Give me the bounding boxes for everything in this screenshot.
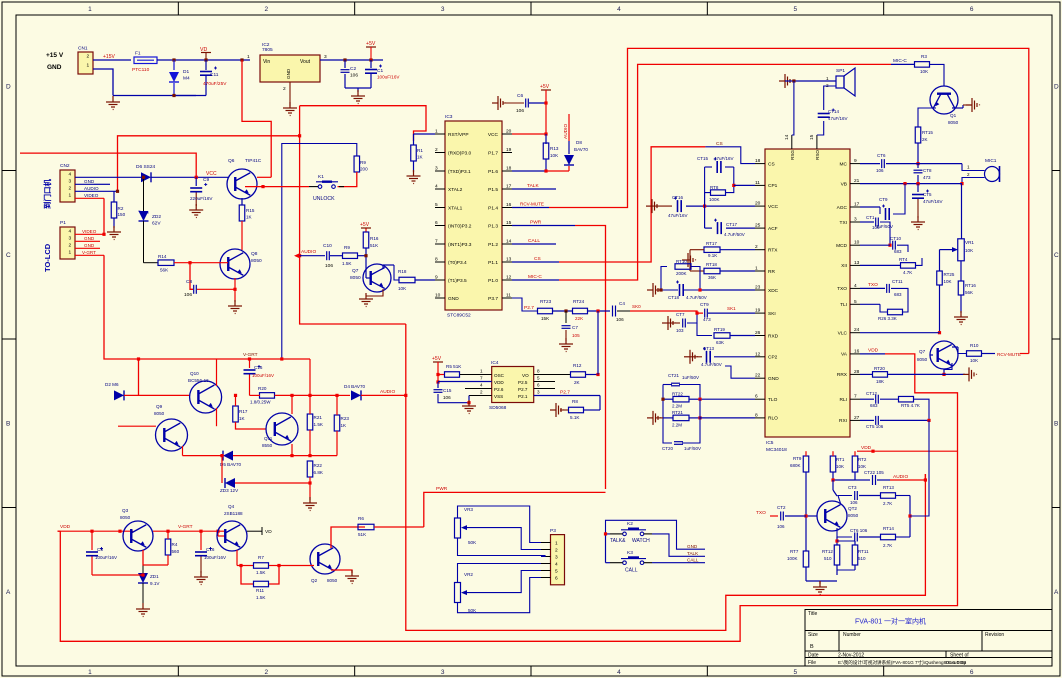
svg-text:RT22: RT22	[672, 392, 683, 397]
capacitor CT12 683 rli	[860, 391, 898, 408]
mcu pins and names	[435, 129, 512, 302]
svg-text:CT6: CT6	[877, 153, 886, 158]
zener ZD3 12V	[220, 454, 310, 493]
resistor RT11 510	[837, 541, 869, 570]
capacitor CT18 4.7uF/50V	[668, 281, 707, 301]
svg-text:C10: C10	[323, 243, 332, 249]
resistor RT24 22K	[553, 299, 610, 321]
svg-text:36K: 36K	[708, 275, 716, 280]
wire gnd pin22	[725, 366, 755, 378]
svg-text:SKI: SKI	[768, 311, 776, 317]
svg-text:Q9: Q9	[156, 404, 163, 409]
svg-text:Q7: Q7	[919, 349, 926, 354]
svg-text:(T1)P3.5: (T1)P3.5	[448, 278, 467, 284]
svg-text:+5V: +5V	[366, 41, 376, 47]
svg-text:1uF/50V: 1uF/50V	[682, 375, 699, 380]
svg-text:3: 3	[324, 54, 327, 60]
mic MIC1	[967, 158, 1000, 182]
svg-text:RT13: RT13	[883, 485, 894, 490]
svg-text:CT13: CT13	[703, 346, 715, 351]
wire Q3 collector V-GRT	[153, 524, 225, 536]
resistor RT25 10K	[937, 250, 955, 335]
wire VCE to Q10 base	[124, 394, 190, 396]
svg-text:3: 3	[555, 555, 558, 561]
svg-text:17: 17	[506, 184, 512, 190]
wires speaker pins	[785, 79, 836, 135]
svg-text:RT10: RT10	[676, 259, 687, 264]
svg-text:RT17: RT17	[706, 241, 717, 246]
svg-text:XDC: XDC	[768, 288, 779, 294]
resistor R5 51K	[438, 364, 475, 377]
wire D6 to VCC node	[151, 171, 228, 179]
svg-text:51K: 51K	[370, 243, 379, 248]
svg-text:CT6 106: CT6 106	[850, 528, 868, 533]
svg-text:106: 106	[850, 500, 858, 505]
resistor RT1 10K	[830, 451, 845, 480]
resistor R17 1K	[233, 394, 266, 429]
svg-text:8: 8	[435, 257, 438, 263]
resistor RT4 4.7K xii	[860, 257, 922, 275]
label to-door chinese	[42, 179, 52, 209]
svg-text:CT11: CT11	[892, 279, 903, 284]
svg-text:5: 5	[435, 202, 438, 208]
svg-text:P1.6: P1.6	[488, 169, 498, 175]
resistor R20 1.8/0.25W	[250, 386, 312, 405]
labels GND TALK CALL	[687, 544, 699, 563]
ground under CT5	[911, 216, 925, 230]
svg-text:473: 473	[923, 175, 931, 180]
svg-text:BC556-16: BC556-16	[188, 378, 209, 383]
svg-text:P2.5: P2.5	[518, 380, 528, 385]
node +5V bar Q7	[360, 222, 371, 228]
svg-text:RT19: RT19	[714, 327, 725, 332]
svg-text:19: 19	[755, 308, 761, 314]
svg-text:1.5K: 1.5K	[256, 570, 266, 575]
svg-text:Q11: Q11	[264, 436, 273, 441]
svg-text:VDD: VDD	[868, 348, 879, 354]
svg-text:1.5K: 1.5K	[314, 422, 324, 427]
svg-text:VR3: VR3	[464, 507, 473, 512]
wire Q6 collector	[257, 176, 271, 178]
svg-text:P1: P1	[60, 220, 66, 226]
svg-text:RT12: RT12	[822, 549, 833, 554]
svg-text:560: 560	[172, 549, 180, 554]
svg-text:+15 V: +15 V	[46, 52, 64, 59]
svg-text:1: 1	[88, 669, 92, 676]
svg-text:Q4: Q4	[228, 504, 235, 509]
svg-text:3: 3	[69, 179, 72, 185]
svg-text:C4: C4	[619, 301, 625, 306]
connector CN2	[60, 163, 75, 202]
svg-text:R4: R4	[172, 542, 178, 547]
svg-text:11: 11	[755, 180, 760, 186]
svg-text:RTX: RTX	[768, 248, 778, 254]
transistor Q2 8050	[310, 544, 340, 583]
wires P1 pins red	[75, 234, 104, 255]
svg-text:P1.0: P1.0	[488, 278, 498, 284]
svg-text:7: 7	[435, 239, 438, 245]
wire TXO pin4	[860, 279, 908, 297]
svg-text:K3: K3	[627, 550, 633, 556]
wire vgrt to vce riser	[138, 359, 140, 395]
ground under R22	[303, 497, 317, 511]
node VD power bar	[200, 47, 211, 60]
svg-text:VLC: VLC	[838, 331, 848, 337]
node VD out	[247, 527, 272, 535]
capacitor CT17 4.7uF/50V acf	[705, 219, 755, 237]
wire MIC-C net	[512, 64, 891, 280]
svg-text:CALL: CALL	[687, 558, 699, 563]
wire VCC pin20	[512, 132, 548, 135]
svg-text:47uF/16V: 47uF/16V	[668, 213, 688, 218]
labels CN2 nets	[84, 179, 99, 198]
svg-text:CS: CS	[534, 256, 541, 262]
svg-text:7: 7	[854, 394, 857, 400]
wire PWR net	[512, 220, 606, 490]
wire gnd under C1 C2	[345, 88, 371, 104]
svg-text:IC5: IC5	[766, 440, 774, 446]
svg-text:6: 6	[970, 6, 974, 13]
svg-text:RT24: RT24	[573, 299, 585, 304]
svg-text:CT15: CT15	[697, 156, 709, 161]
resistor R6 51K	[358, 516, 424, 537]
wire TALK net	[512, 183, 556, 189]
svg-text:RT5 4.7K: RT5 4.7K	[901, 403, 920, 408]
svg-text:GND: GND	[47, 64, 62, 71]
svg-text:AGC: AGC	[837, 205, 848, 211]
svg-text:106: 106	[872, 225, 880, 230]
svg-text:ZD2: ZD2	[152, 214, 161, 220]
svg-text:RT15: RT15	[922, 130, 933, 135]
svg-text:PTC110: PTC110	[132, 67, 150, 73]
capacitor C9 220uF/16V	[190, 177, 213, 206]
wire Q2 collector R6	[331, 527, 365, 548]
svg-text:A: A	[6, 589, 11, 596]
resistor RT9 680K	[790, 451, 809, 551]
svg-text:CT8: CT8	[923, 168, 932, 173]
transistor Q9 8050	[154, 404, 188, 451]
svg-text:VO: VO	[522, 373, 529, 378]
svg-text:4: 4	[69, 229, 72, 235]
capacitor C7 105	[562, 311, 581, 341]
svg-text:7805: 7805	[262, 47, 273, 53]
wire RCV-MUTE net	[512, 48, 1029, 353]
capacitor C6 106 and +5V	[503, 84, 551, 134]
resistor RT7 100K	[787, 549, 809, 581]
wire Q11 collector emitter	[290, 397, 293, 457]
svg-text:CT10: CT10	[890, 236, 902, 241]
svg-text:8050: 8050	[154, 411, 165, 416]
svg-text:ACF: ACF	[768, 226, 778, 232]
potentiometer VR3 50K	[455, 507, 478, 545]
svg-text:R18: R18	[398, 269, 407, 274]
svg-text:1.5K: 1.5K	[342, 261, 352, 266]
ground left of R8	[550, 403, 564, 417]
svg-text:4.7uF/50V: 4.7uF/50V	[686, 295, 707, 300]
svg-text:AUDIO: AUDIO	[84, 186, 99, 191]
svg-text:CT2: CT2	[777, 505, 786, 510]
wire Q2 base R7	[283, 565, 314, 567]
svg-text:18: 18	[755, 158, 761, 164]
resistor RT20 18K rrx	[860, 366, 944, 384]
resistor R1 1K	[411, 134, 435, 172]
svg-text:RR: RR	[768, 269, 775, 275]
resistor R4 560	[165, 530, 179, 565]
svg-text:7: 7	[480, 376, 483, 381]
wire QT2 base links	[804, 480, 837, 518]
resistor R9b 1.5K	[330, 245, 366, 266]
wire VCC branch red left rail	[20, 153, 196, 176]
resistor R12 2K	[571, 311, 600, 385]
capacitor CT14 47uF/16V	[818, 109, 848, 122]
resistor RT15 2K	[915, 108, 936, 165]
svg-text:P1.7: P1.7	[488, 150, 498, 156]
resistor RT5 4.7K	[899, 396, 930, 420]
svg-text:M4: M4	[183, 76, 190, 82]
capacitor CT1 106 txi	[860, 215, 892, 247]
wires K2 K3 nets	[604, 520, 705, 562]
svg-text:ZD3 12V: ZD3 12V	[220, 488, 239, 493]
svg-text:XTAL1: XTAL1	[448, 205, 463, 211]
svg-text:106: 106	[350, 73, 358, 79]
capacitor C16 100uF/16V	[195, 530, 226, 573]
svg-text:R23: R23	[341, 416, 350, 421]
svg-text:CALL: CALL	[528, 238, 540, 244]
wire Q2 emitter gnd	[331, 570, 359, 584]
svg-text:2: 2	[265, 6, 269, 13]
svg-text:8050: 8050	[251, 258, 262, 264]
diode D8 BAV70 audio	[564, 140, 588, 171]
capacitor C4 106 SK0	[613, 301, 656, 322]
wire F1 to 7805	[157, 58, 250, 61]
svg-text:12: 12	[506, 275, 512, 281]
wire +15V	[93, 54, 131, 60]
ground under R1	[407, 170, 421, 184]
svg-text:Sheet of: Sheet of	[950, 653, 969, 659]
capacitor CT5 47uF/16V	[912, 184, 943, 218]
svg-text:(T0)P3.4: (T0)P3.4	[448, 260, 467, 266]
svg-text:683: 683	[870, 403, 878, 408]
svg-text:15: 15	[506, 220, 512, 226]
svg-text:18: 18	[506, 166, 512, 172]
ground QT2	[806, 581, 837, 595]
svg-text:D2 M6: D2 M6	[105, 382, 119, 387]
resistor RT18 36K rr	[690, 262, 755, 280]
svg-text:UNLOCK: UNLOCK	[313, 196, 335, 202]
svg-text:2: 2	[69, 243, 72, 249]
svg-text:VD: VD	[265, 529, 272, 535]
svg-text:5.1K: 5.1K	[570, 415, 580, 420]
sd5068 pin names	[480, 369, 540, 400]
svg-text:RT8: RT8	[710, 185, 719, 190]
svg-text:4: 4	[435, 184, 438, 190]
xdc parallel loop	[655, 267, 755, 292]
svg-text:2.2M: 2.2M	[672, 423, 682, 428]
svg-text:2: 2	[967, 172, 970, 177]
svg-text:GND: GND	[84, 243, 95, 248]
svg-text:(INT0)P3.2: (INT0)P3.2	[448, 223, 472, 229]
ground under CN1	[106, 96, 196, 110]
svg-text:8050: 8050	[917, 357, 928, 362]
svg-text:4: 4	[69, 172, 72, 178]
svg-text:(RXD)P3.0: (RXD)P3.0	[448, 150, 472, 156]
svg-text:4.7K: 4.7K	[903, 270, 912, 275]
svg-text:11: 11	[506, 293, 511, 299]
svg-text:R26 3.3K: R26 3.3K	[878, 316, 897, 321]
svg-text:2: 2	[555, 548, 558, 554]
svg-text:19: 19	[506, 147, 512, 153]
svg-text:CN2: CN2	[60, 163, 70, 169]
transistor Q8 8050	[220, 249, 262, 279]
node +15 V input label	[46, 52, 64, 71]
svg-text:P3: P3	[550, 528, 556, 534]
svg-text:3: 3	[69, 236, 72, 242]
label TO-LCD	[43, 243, 52, 272]
svg-text:R2: R2	[118, 206, 124, 211]
svg-text:20: 20	[755, 201, 761, 207]
svg-text:3: 3	[435, 166, 438, 172]
svg-text:6: 6	[555, 576, 558, 582]
svg-text:62V: 62V	[152, 221, 161, 227]
svg-text:WATCH: WATCH	[632, 538, 650, 544]
wire cn2 audio riser red	[118, 136, 300, 191]
svg-text:Title: Title	[808, 611, 817, 617]
svg-text:Q7: Q7	[352, 268, 359, 274]
resistor R21 1.5K	[307, 359, 324, 456]
wire VDD row bottom	[857, 445, 958, 453]
svg-text:CT21: CT21	[668, 373, 680, 378]
svg-text:9: 9	[435, 275, 438, 281]
svg-text:8050: 8050	[350, 275, 361, 281]
svg-text:SD5068: SD5068	[489, 405, 507, 411]
svg-text:AUDIO: AUDIO	[893, 474, 908, 480]
wires MIC1	[918, 164, 985, 186]
resistor R15 1K	[239, 198, 255, 250]
svg-text:R13: R13	[550, 146, 559, 151]
capacitor CT22 105 audio out	[855, 470, 927, 485]
svg-text:BAV70: BAV70	[574, 147, 588, 152]
diode D5 BAV70	[220, 451, 312, 467]
capacitor C16b 100uF/16V	[244, 359, 275, 395]
svg-text:B: B	[6, 420, 10, 427]
svg-text:8050: 8050	[848, 513, 859, 518]
svg-text:TO-LCD: TO-LCD	[43, 243, 52, 272]
resistor RT23 15K	[538, 299, 553, 321]
transistor QT2 8050	[817, 501, 859, 531]
svg-text:VDD: VDD	[494, 380, 504, 385]
svg-text:RT21: RT21	[672, 410, 683, 415]
svg-text:RXI: RXI	[839, 418, 847, 424]
sd5068 pin wires	[438, 375, 600, 396]
svg-text:VIDEO: VIDEO	[84, 193, 99, 198]
transistor Q7 8050 audio	[350, 264, 391, 292]
svg-text:5: 5	[794, 6, 798, 13]
resistor R10 10K rcvmute	[952, 343, 1029, 363]
svg-text:P2.6: P2.6	[494, 387, 504, 392]
svg-text:2: 2	[69, 186, 72, 192]
svg-text:24: 24	[854, 327, 860, 333]
svg-text:Q10: Q10	[190, 371, 199, 376]
svg-text:CT9: CT9	[700, 302, 709, 307]
svg-text:V-GRT: V-GRT	[178, 524, 193, 530]
svg-text:27: 27	[854, 415, 860, 421]
svg-text:R11: R11	[256, 588, 265, 593]
capacitor C10 106	[300, 243, 334, 269]
svg-text:R17: R17	[239, 409, 248, 414]
svg-text:(TXD)P3.1: (TXD)P3.1	[448, 169, 471, 175]
svg-text:VSS: VSS	[494, 394, 503, 399]
svg-text:106: 106	[184, 292, 192, 298]
wire rt13 rt14 join	[908, 420, 929, 537]
svg-text:10K: 10K	[858, 464, 866, 469]
svg-text:CT14: CT14	[828, 109, 840, 114]
node +5V SD5068	[432, 356, 443, 384]
svg-text:D: D	[1054, 83, 1059, 90]
svg-text:683: 683	[894, 292, 902, 297]
capacitor C8 106	[184, 263, 237, 298]
svg-text:RT18: RT18	[706, 262, 717, 267]
title block	[805, 610, 1052, 667]
resistor R8 5.1K	[560, 396, 600, 421]
resistor R7 1.5K	[237, 550, 283, 575]
svg-text:47uF/16V: 47uF/16V	[828, 116, 848, 121]
svg-text:RXD: RXD	[768, 333, 779, 339]
svg-text:RT20: RT20	[874, 366, 885, 371]
diode D1 M4	[169, 60, 190, 96]
svg-text:14: 14	[506, 239, 512, 245]
ground under C7	[559, 338, 573, 352]
wire CS label into pin18	[705, 141, 755, 164]
svg-text:到门口机: 到门口机	[42, 179, 52, 209]
svg-text:10K: 10K	[398, 286, 407, 291]
svg-text:CT9: CT9	[879, 197, 888, 202]
transistor Q1 8050	[930, 86, 959, 125]
svg-text:106: 106	[616, 317, 624, 322]
transistor Q10 BC556-16	[188, 371, 222, 413]
svg-text:6: 6	[970, 669, 974, 676]
svg-text:680K: 680K	[790, 463, 801, 468]
svg-text:File: File	[808, 660, 816, 666]
diode D2 M6	[105, 382, 124, 400]
svg-text:R20: R20	[258, 386, 267, 391]
svg-text:A: A	[1054, 589, 1059, 596]
connector P1	[60, 220, 75, 259]
svg-text:C2: C2	[350, 66, 356, 72]
svg-text:P3.7: P3.7	[488, 296, 498, 302]
svg-text:CT5 106: CT5 106	[866, 424, 884, 429]
svg-text:R6: R6	[358, 516, 364, 521]
svg-text:MCD: MCD	[836, 243, 847, 249]
svg-text:VIDEO: VIDEO	[82, 229, 97, 234]
svg-text:CP1: CP1	[768, 183, 778, 189]
svg-text:D1: D1	[183, 69, 189, 75]
svg-text:22: 22	[755, 373, 761, 379]
svg-text:100uF/16V: 100uF/16V	[252, 373, 274, 378]
wire pin11 P2.7	[512, 298, 537, 311]
svg-text:SK1: SK1	[727, 306, 736, 311]
svg-text:+5V: +5V	[432, 356, 442, 362]
svg-text:10: 10	[435, 293, 441, 299]
svg-text:5: 5	[794, 669, 798, 676]
resistor R26 3.3K tli	[860, 295, 908, 321]
svg-text:D8: D8	[576, 140, 582, 145]
svg-text:SK0: SK0	[632, 304, 641, 309]
svg-text:Date: Date	[808, 653, 819, 659]
svg-text:R3: R3	[921, 54, 927, 59]
wire VB pin21	[860, 182, 962, 185]
svg-text:17: 17	[854, 202, 860, 208]
svg-text:2: 2	[435, 147, 438, 153]
